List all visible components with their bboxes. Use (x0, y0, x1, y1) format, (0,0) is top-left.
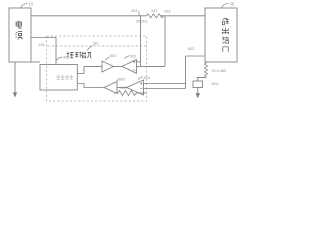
stub U502 upper (137, 61, 141, 63)
wire node y77 (197, 76, 206, 78)
svg-text:401: 401 (39, 43, 45, 47)
svg-text:602: 602 (121, 86, 127, 90)
sense wire right (node 165) (164, 16, 166, 66)
control chip dashed box 20 (47, 36, 147, 101)
ground arrow right (196, 93, 200, 98)
wire U501 to comparator U502 (114, 66, 123, 68)
svg-text:501: 501 (110, 54, 116, 58)
ground lead power (14, 62, 16, 93)
resistor R604 lead bottom (198, 77, 206, 82)
svg-text:10: 10 (29, 2, 34, 7)
wire U502 to sense node (137, 65, 166, 67)
component box B604 (193, 81, 203, 88)
resistor R602 (bottom, horizontal) lead left (114, 92, 118, 94)
wire top rail right (161, 15, 206, 17)
inner dashed divider (48, 45, 147, 47)
feedback vertical (185, 56, 187, 89)
svg-text:20: 20 (93, 41, 98, 46)
leader callout 10 (21, 3, 28, 8)
svg-text:30:302: 30:302 (136, 20, 148, 24)
plus mark U502 (133, 61, 135, 63)
resistor R602 zigzag (118, 90, 136, 95)
leader callout 30 (222, 3, 229, 8)
minus mark U504 (140, 88, 142, 90)
wire power box bottom ext (31, 61, 40, 63)
wire U503 to comparator U504 (117, 87, 127, 89)
resistor R602 lead right (136, 92, 147, 94)
output port box 输出端口 (205, 8, 237, 62)
ground arrow power (13, 92, 17, 97)
svg-text:R=4.4kΩ: R=4.4kΩ (212, 69, 226, 73)
op-amp U502 comparator (left-pointing) (122, 60, 137, 74)
svg-text:204: 204 (131, 9, 137, 13)
svg-text:201: 201 (151, 9, 157, 13)
resistor R201 (top rail) (147, 14, 164, 18)
leader callout 503 (117, 79, 119, 81)
wire top rail left (31, 15, 147, 17)
svg-text:503: 503 (119, 77, 125, 81)
plus mark U504 (140, 82, 142, 84)
resistor R604 lead top (205, 62, 207, 64)
wire module stub1 to buffer U501 (77, 67, 102, 74)
wire module stub2 to buffer U503 (77, 84, 104, 88)
svg-text:504: 504 (144, 76, 150, 80)
feedback wire lower (144, 88, 186, 90)
leader callout 402 (57, 57, 63, 61)
ground lead right (197, 88, 199, 94)
op-amp U503 buffer (left-pointing) (104, 82, 117, 94)
op-amp U504 comparator (left-pointing) (127, 80, 144, 95)
svg-text:502: 502 (130, 54, 136, 58)
feedback wire upper (144, 83, 186, 85)
leader callout 502 (125, 56, 130, 59)
wire W1 power to module (31, 38, 56, 65)
label tick node 204 (138, 11, 140, 16)
sense wire left (node 141) (140, 16, 142, 66)
resistor R604 zigzag vertical (204, 63, 207, 76)
glyph 电 (power box) (16, 21, 22, 28)
wire to output port (186, 55, 206, 57)
leader callout 504 (138, 77, 143, 80)
svg-text:604: 604 (212, 82, 218, 86)
glyphs 控制芯片 (control chip) (67, 52, 92, 58)
op-amp U501 buffer (102, 61, 114, 72)
svg-text:603: 603 (188, 47, 194, 51)
leader callout 501 (106, 57, 110, 61)
signal module box U40 (40, 65, 77, 91)
glyphs 输出端口 (output port, stacked) (222, 18, 229, 52)
svg-text:30: 30 (230, 2, 235, 7)
glyph 源 (power box) (15, 32, 22, 40)
leader callout 20 (88, 46, 93, 51)
minus mark U502 (133, 69, 135, 71)
glyphs module text row (56, 75, 73, 80)
power supply box 电源 (9, 8, 31, 62)
svg-text:203: 203 (164, 10, 170, 14)
